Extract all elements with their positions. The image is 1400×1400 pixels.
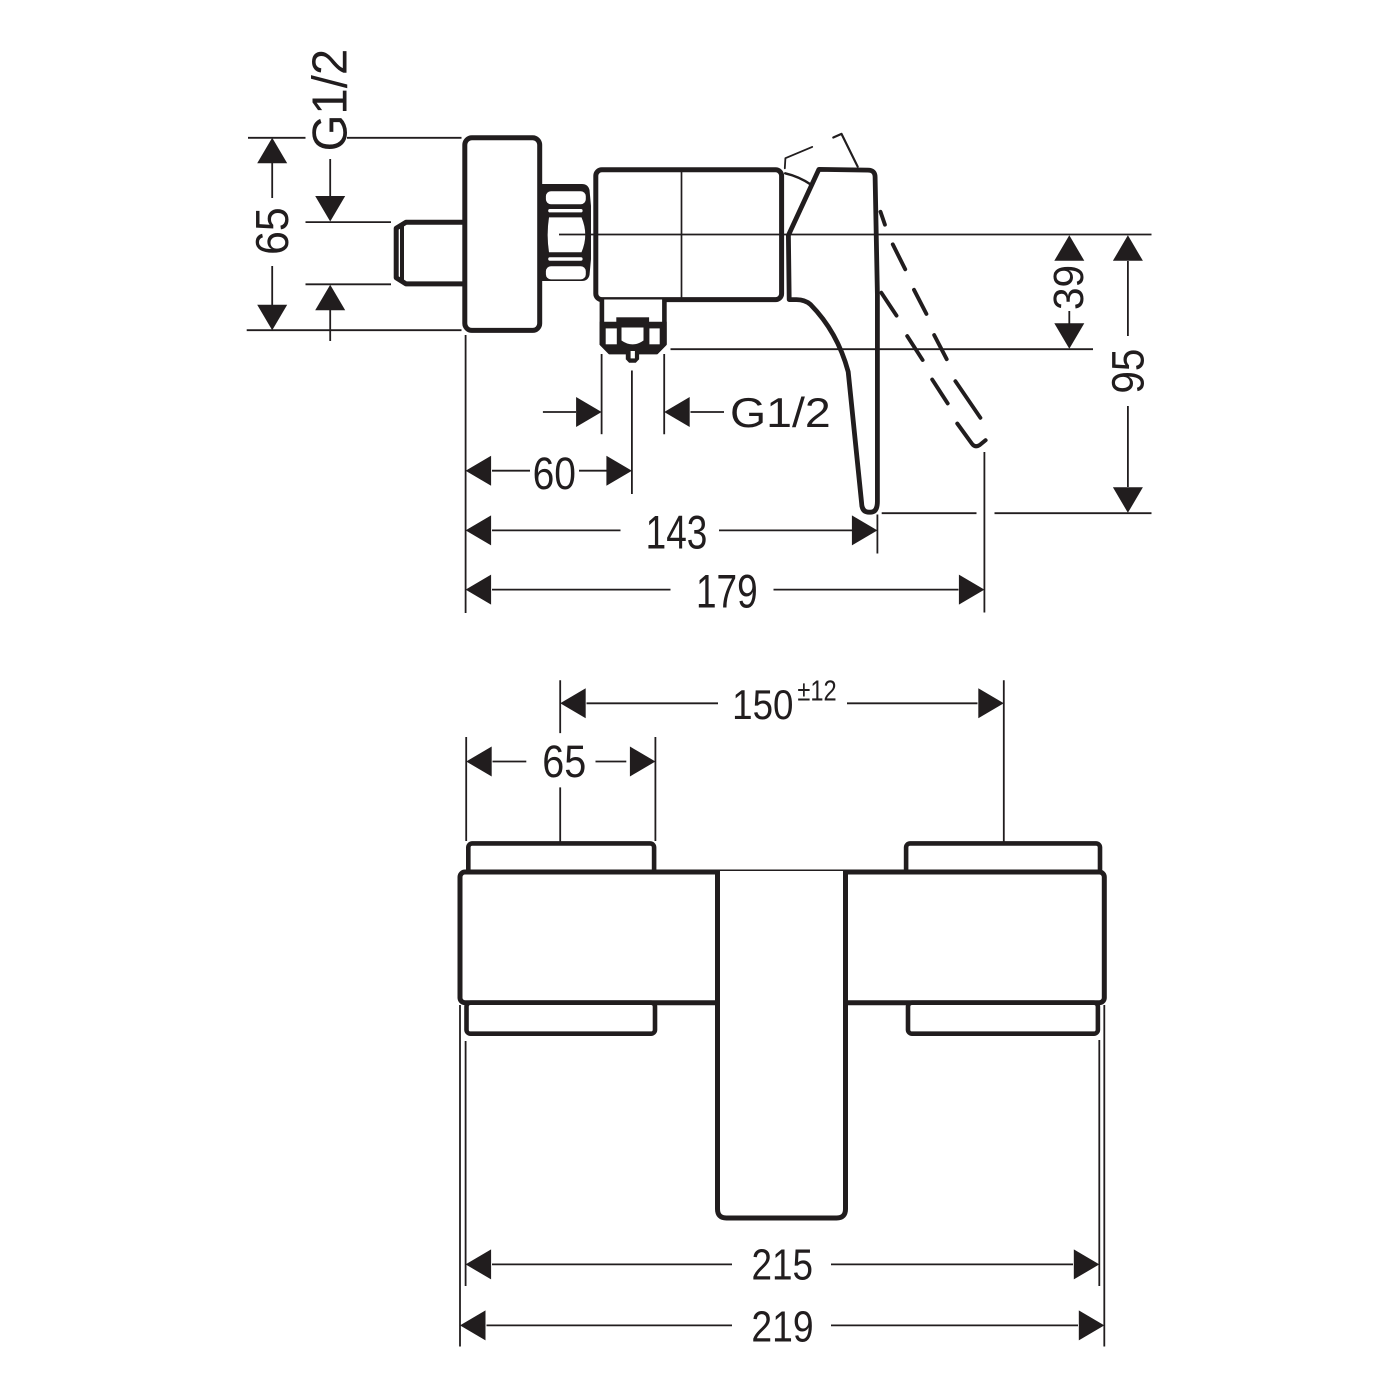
handle with lever (closed position) xyxy=(788,169,877,512)
escutcheon bottom tab right (front view) xyxy=(908,1003,1098,1034)
dimension 65 (bottom view) xyxy=(466,747,655,777)
wire: reference line lever tip level xyxy=(882,512,1152,514)
nut facet bottom xyxy=(546,266,586,279)
label G1/2 outlet xyxy=(730,389,831,436)
wire: outlet right edge extension xyxy=(663,354,665,434)
open handle outline thin line A xyxy=(785,147,812,168)
label 60 xyxy=(533,448,576,499)
wire: plate extension line (left, below) xyxy=(465,335,467,613)
svg-text:65: 65 xyxy=(542,736,586,787)
outlet tip notch xyxy=(631,351,635,358)
wire: 150 extension line left xyxy=(559,680,561,885)
wall plate (side view) xyxy=(465,138,540,331)
dimension 60 xyxy=(466,456,632,486)
label 150 +-12 xyxy=(732,676,837,728)
dimension 65 (side view, vertical) xyxy=(257,138,287,330)
label 215 xyxy=(751,1241,813,1289)
centre line of body xyxy=(559,234,1152,236)
label 143 xyxy=(646,506,708,559)
open lever tip cap xyxy=(957,424,985,447)
valve body (side view) xyxy=(596,170,782,300)
escutcheon bottom tab left (front view) xyxy=(467,1003,656,1034)
wire: reference line 39 (outlet level) xyxy=(671,348,1094,350)
wire: outlet left edge extension xyxy=(601,354,603,434)
svg-text:G1/2: G1/2 xyxy=(730,389,831,436)
label 65 (bottom view) xyxy=(542,736,586,787)
wire: 65 extension line right (bottom view) xyxy=(654,737,656,841)
svg-text:219: 219 xyxy=(751,1303,813,1351)
label 65 (rotated) xyxy=(246,207,298,255)
wire: nipple top reference line xyxy=(306,221,392,223)
outlet hex nut (filled band) xyxy=(600,317,667,354)
dimension 95 (vertical) xyxy=(1113,235,1143,513)
nipple end cap line xyxy=(400,224,404,283)
dimension 39 (vertical) xyxy=(1054,235,1084,348)
label 219 xyxy=(751,1303,813,1351)
wire: 215 extension line right xyxy=(1098,1040,1100,1286)
open handle outline thin line B xyxy=(833,134,857,167)
nut facet middle (barrel) xyxy=(548,217,586,252)
nut facet line 1 xyxy=(548,209,582,212)
svg-text:±12: ±12 xyxy=(797,676,836,708)
wire: 65 extension line left (bottom view) xyxy=(465,737,467,841)
outlet tip xyxy=(626,352,639,363)
nut facet line 2 xyxy=(548,257,582,260)
outlet aerator centre xyxy=(622,328,644,345)
wire: top reference line at plate top (65 dim) xyxy=(248,137,462,139)
outlet block below body xyxy=(602,300,665,353)
label 95 (rotated) xyxy=(1103,349,1154,394)
wire: 150 extension line right xyxy=(1003,680,1005,889)
label 39 (rotated) xyxy=(1046,265,1093,310)
union nut (side view) xyxy=(539,184,591,281)
label 179 xyxy=(696,565,758,618)
wire: bottom reference line at plate bottom (65 dim) xyxy=(247,329,462,331)
mixer bar (front view) xyxy=(460,872,1104,1003)
dimension G1/2 nipple (vertical arrows) xyxy=(315,159,345,341)
escutcheon top tab right (front view) xyxy=(906,843,1100,873)
wire: open lever tip extension line xyxy=(983,452,985,613)
wire: 219 extension line left xyxy=(459,1005,461,1347)
svg-text:143: 143 xyxy=(646,506,708,559)
open lever dashed outline (lower edge) xyxy=(881,293,947,404)
inlet nipple G1/2 (side view) xyxy=(396,222,464,284)
label G1/2 top (rotated) xyxy=(304,49,358,152)
dimension 215 xyxy=(466,1249,1100,1279)
handle (front view) xyxy=(718,871,846,1218)
svg-text:179: 179 xyxy=(696,565,758,618)
dimension 150 xyxy=(560,688,1004,718)
outlet nut facet left xyxy=(606,328,617,344)
svg-text:150: 150 xyxy=(732,681,793,728)
svg-text:95: 95 xyxy=(1103,349,1154,394)
svg-text:39: 39 xyxy=(1046,265,1093,310)
dimension 143 xyxy=(466,515,878,545)
svg-text:60: 60 xyxy=(533,448,576,499)
escutcheon top tab left (front view) xyxy=(468,843,654,873)
open lever dashed outline (upper edge) xyxy=(881,212,981,418)
wire: outlet centre extension xyxy=(631,371,633,495)
wire: 215 extension line left xyxy=(465,1041,467,1286)
svg-text:65: 65 xyxy=(246,207,298,255)
body groove line xyxy=(681,172,683,298)
dimension G1/2 outlet (horizontal arrows) xyxy=(543,397,724,427)
dimension 219 xyxy=(460,1310,1104,1340)
wire: nipple bottom reference line xyxy=(306,283,392,285)
svg-text:G1/2: G1/2 xyxy=(304,49,358,152)
handle rotation arc xyxy=(785,173,811,184)
dimension 179 xyxy=(466,575,985,605)
svg-text:215: 215 xyxy=(751,1241,813,1289)
outlet nut facet right xyxy=(649,328,659,344)
wire: 219 extension line right xyxy=(1103,1005,1105,1347)
wire: lever tip extension line xyxy=(876,515,878,554)
nut facet top xyxy=(546,191,586,204)
